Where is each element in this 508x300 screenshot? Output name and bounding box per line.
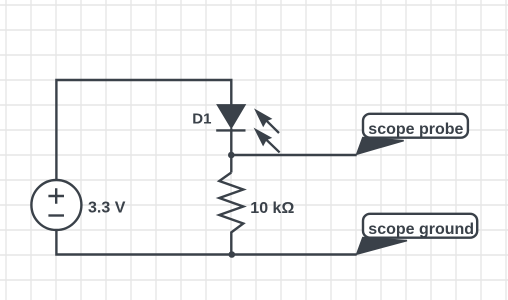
- svg-text:scope probe: scope probe: [368, 121, 463, 138]
- svg-text:3.3 V: 3.3 V: [88, 199, 126, 216]
- svg-text:10 kΩ: 10 kΩ: [250, 200, 294, 217]
- svg-text:D1: D1: [192, 110, 211, 127]
- svg-text:scope ground: scope ground: [368, 221, 474, 238]
